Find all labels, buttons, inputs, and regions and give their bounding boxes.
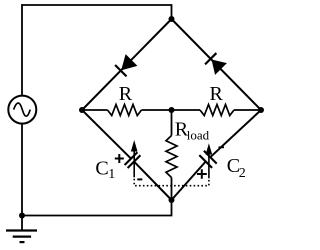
node right [258,107,264,113]
C2 polarity minus [219,146,225,148]
source V1 sine symbol [14,103,31,116]
wire Rload bottom stub [171,178,173,201]
C2 polarity plus [197,169,207,179]
wire top rail [22,5,172,19]
C1 polarity plus [115,154,124,163]
wire arm bottom-right lower stub [172,162,206,201]
svg-text:2: 2 [239,166,246,181]
diode D2 cathode bar [205,53,216,64]
wire left rail lower [21,124,23,216]
wire Rload top stub [171,110,173,136]
resistor R (right) zigzag [200,105,234,116]
node ground junction [19,213,25,219]
ground bar 2 [13,236,31,238]
svg-text:C: C [95,158,108,180]
capacitor C2 plate 1 [199,155,212,168]
node top [169,16,175,22]
C1 polarity minus [137,178,142,180]
wire arm bottom-left upper stub [82,110,131,159]
wire middle right segment [234,109,261,111]
svg-text:1: 1 [108,167,115,182]
capacitor C2 arrow shaft [208,154,210,179]
wire arm bottom-left lower stub [134,162,172,200]
svg-text:load: load [187,128,210,143]
wire bottom rail [22,200,172,216]
node center [169,107,175,113]
wire arm top-left [82,19,172,110]
wire arm top-right [172,19,262,110]
source V1 circle [8,96,36,124]
diode D1 cathode bar [115,65,126,76]
capacitor C1 arrow shaft [133,150,135,178]
node bottom [169,197,175,203]
wire arm bottom-right upper stub [210,110,261,157]
capacitor C2 plate 2 [204,151,217,164]
ganged tuning dotted link [134,179,209,186]
resistor Rload zigzag [166,136,177,178]
ground bar 3 [20,241,25,243]
diode D1 triangle [121,54,137,70]
ground bar 1 [6,229,37,231]
svg-text:R: R [119,83,133,105]
wire middle center segment [142,109,201,111]
capacitor C1 arrow head [131,140,138,152]
ground stem [21,216,23,231]
capacitor C1 plate 2 [128,155,141,168]
capacitor C1 plate 1 [125,152,138,165]
wire left rail upper [21,4,23,96]
svg-text:R: R [210,83,224,105]
capacitor C2 arrow head [206,143,213,154]
node left [79,107,85,113]
diode D2 triangle [212,60,227,75]
resistor R (left) zigzag [108,105,142,116]
wire middle left segment [82,109,108,111]
